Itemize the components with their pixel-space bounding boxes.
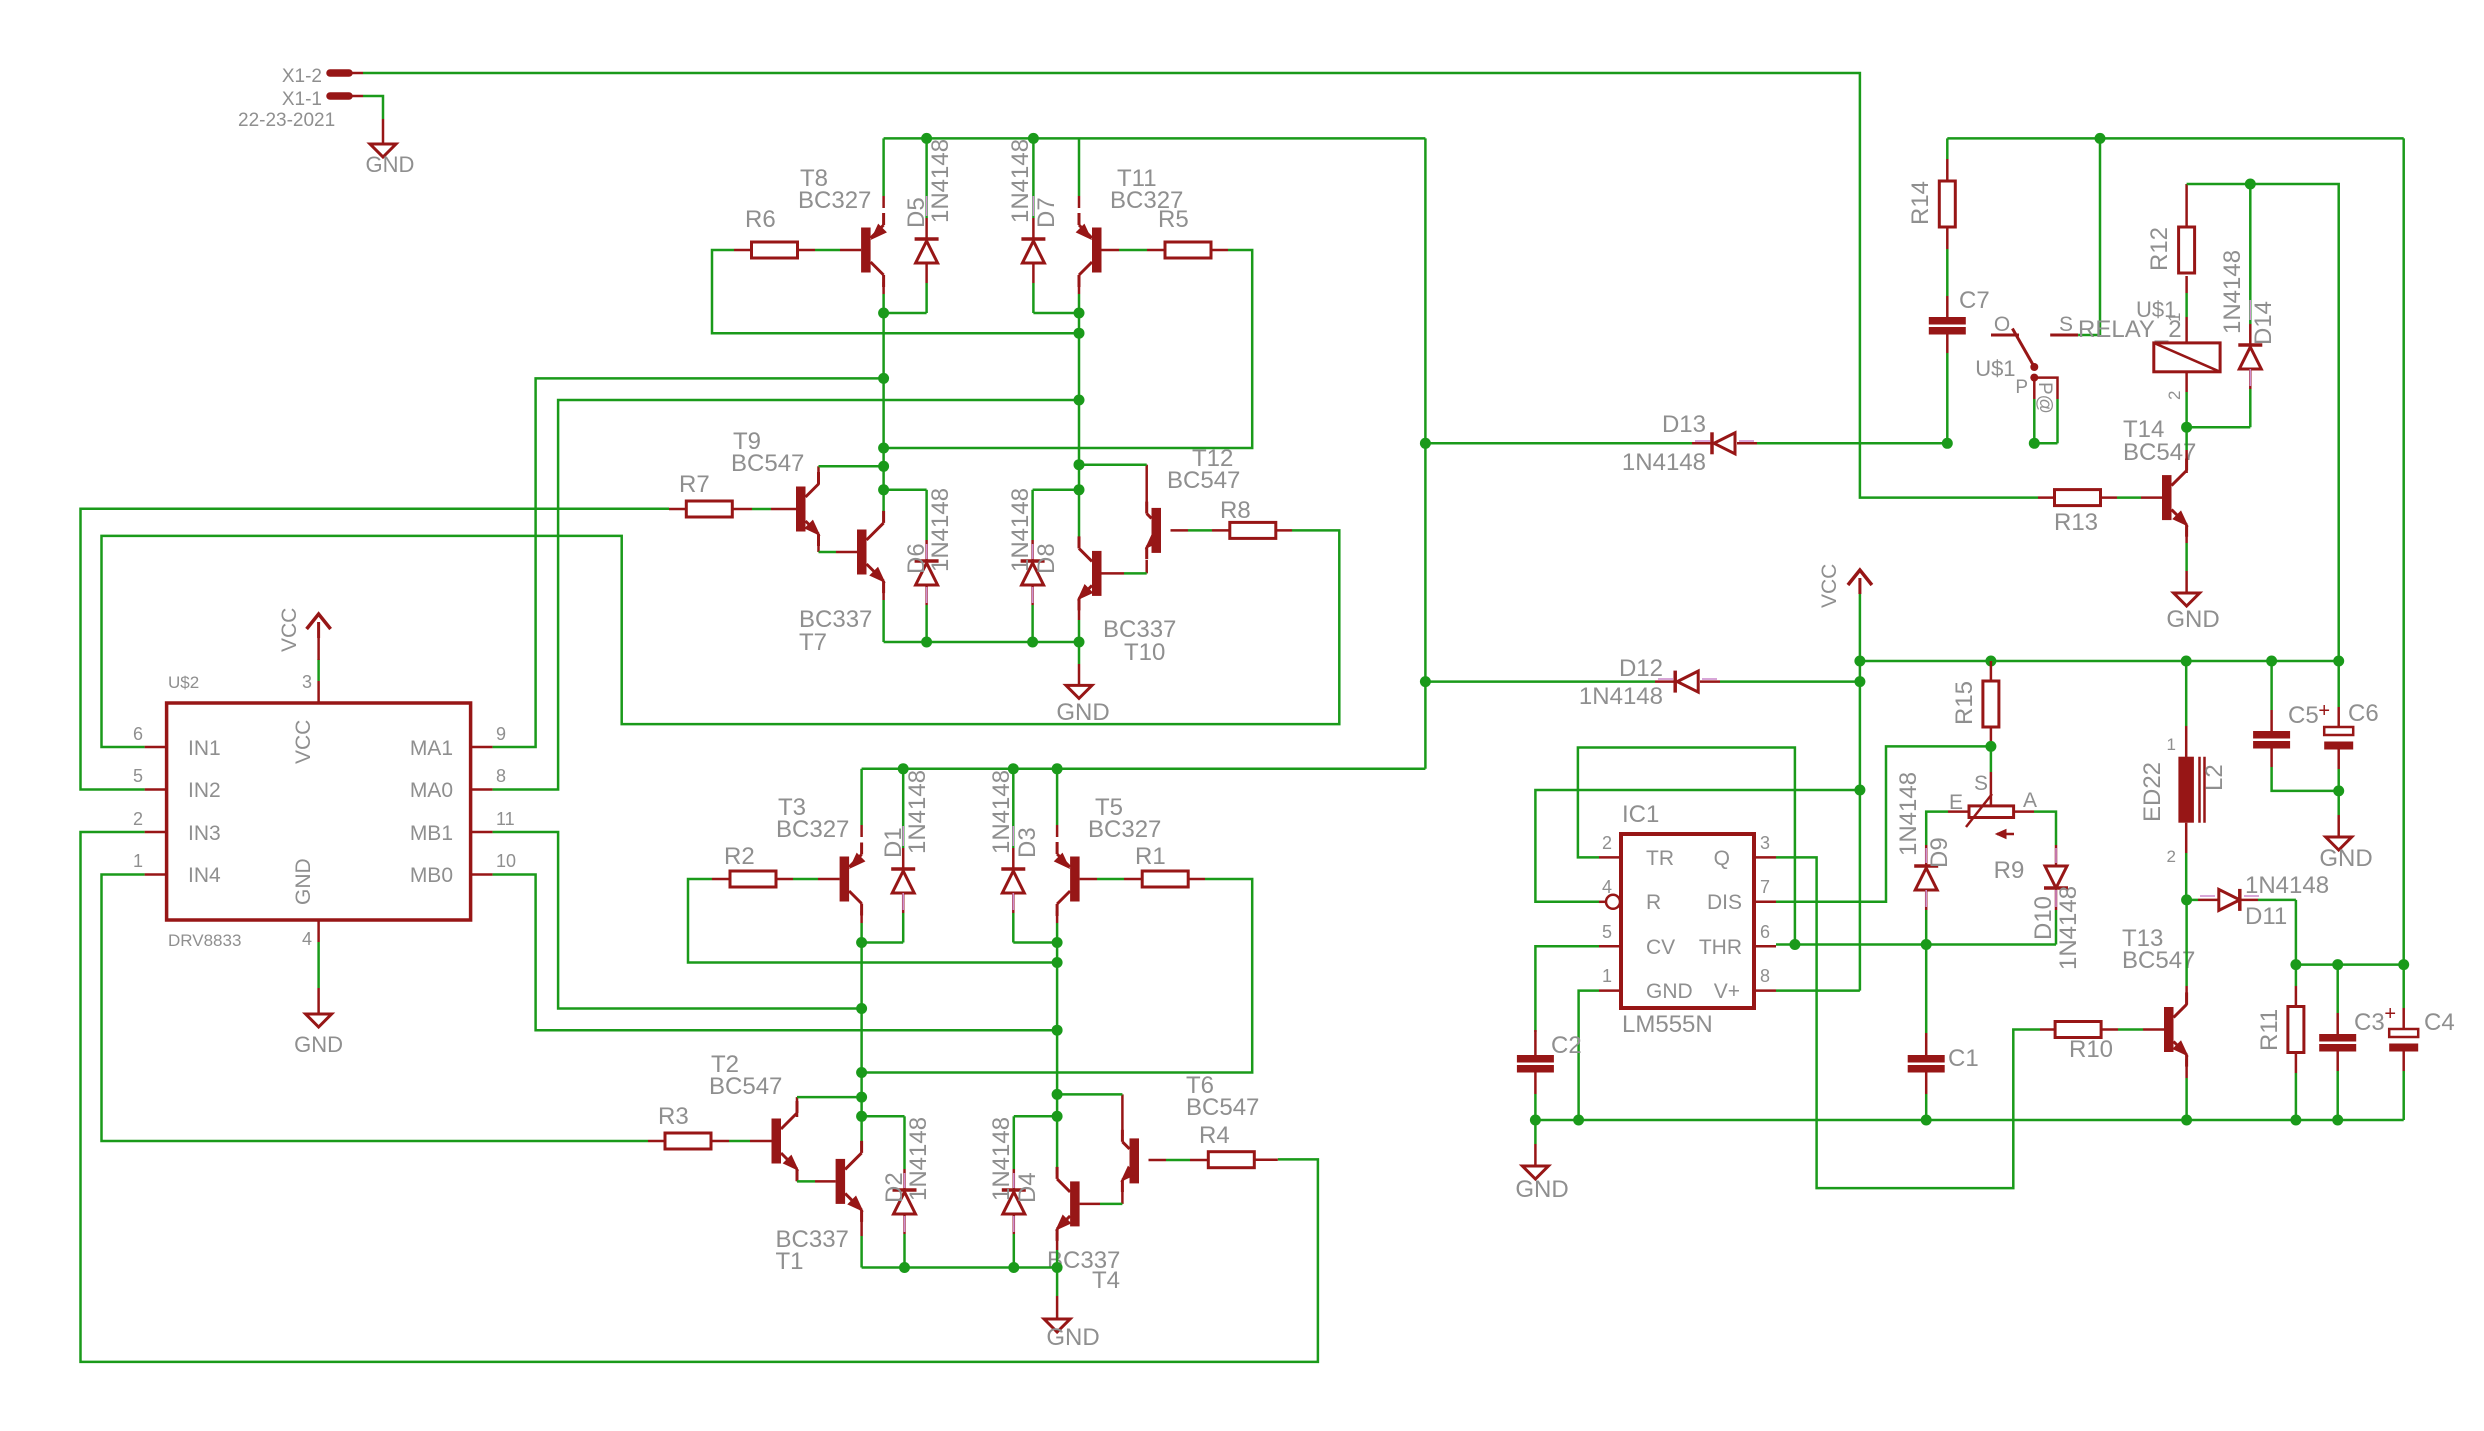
junction bus2 C4 [2398, 959, 2409, 970]
junction A1 D6 [878, 484, 889, 495]
wire upper bridge emitter rail [884, 641, 1079, 644]
svg-text:+: + [2318, 700, 2330, 722]
svg-text:5: 5 [133, 766, 143, 786]
svg-text:1N4148: 1N4148 [927, 488, 954, 572]
wire T11 collector to node [1078, 282, 1081, 313]
svg-text:GND: GND [2166, 606, 2219, 633]
diode D5 1N4148 [915, 138, 939, 313]
svg-text:3: 3 [1760, 833, 1770, 853]
capacitor C2 [1517, 1030, 1582, 1120]
wire R8 right stub [1276, 529, 1292, 532]
capacitor C4 (polarized) [2384, 965, 2454, 1120]
resistor R1 [1135, 843, 1188, 887]
wire R10 stubs [2040, 1028, 2164, 1031]
junction VCC resetline [1854, 785, 1865, 796]
node A1 junction D5 [878, 308, 889, 319]
wire node B0 column [1056, 943, 1059, 1175]
wire T5 emitter riser [1056, 769, 1059, 837]
junction B1 T2 [856, 1092, 867, 1103]
svg-text:2: 2 [2167, 847, 2176, 866]
IC U$2 DRV8833 box [167, 673, 471, 950]
label D5 [903, 139, 954, 228]
wire R3 stubs [648, 1140, 772, 1143]
junction top rail D5 [921, 133, 932, 144]
svg-text:D6: D6 [903, 543, 930, 574]
transistor T5 BC327 [1055, 842, 1080, 916]
svg-text:D1: D1 [880, 827, 907, 858]
svg-text:R15: R15 [1951, 681, 1978, 725]
label T8 [798, 165, 871, 214]
wire VCC bus [1860, 660, 2339, 663]
svg-text:T4: T4 [1092, 1267, 1120, 1294]
label L2 pin1 [2167, 735, 2176, 754]
junction VBAT D13 [1420, 438, 1431, 449]
IC1 pin names [1646, 847, 1742, 1003]
wire T2 collector to node B1 [797, 1097, 862, 1117]
power VCC (U$2 pin 3) [278, 608, 331, 681]
capacitor C3 [2319, 965, 2384, 1120]
wire D13 line [1425, 442, 1947, 445]
resistor R3 [658, 1103, 711, 1149]
svg-text:1: 1 [133, 851, 143, 871]
wire R4 right stub [1254, 1158, 1278, 1161]
transistor T4 BC337 [1056, 1167, 1080, 1241]
svg-text:C2: C2 [1551, 1032, 1582, 1059]
junction gndrail T13 [2181, 1115, 2192, 1126]
wire lower bridge emitter rail [862, 1266, 1058, 1269]
svg-text:BC327: BC327 [1088, 816, 1161, 843]
label D2 [881, 1117, 932, 1203]
label T5 [1088, 794, 1161, 843]
wire R7 stubs [669, 508, 796, 511]
svg-text:1N4148: 1N4148 [988, 1117, 1015, 1201]
wire IN1 to R8 [102, 530, 1340, 747]
label U$1 switch [1975, 356, 2015, 381]
resistor R12 [2146, 227, 2195, 273]
svg-text:IC1: IC1 [1622, 801, 1659, 828]
transistor T9 BC547 [796, 472, 820, 546]
wire D5 jog [884, 312, 927, 315]
wire T6 base to R4 [1149, 1159, 1209, 1162]
svg-text:1N4148: 1N4148 [1579, 683, 1663, 710]
diode D4 1N4148 [1002, 1116, 1057, 1267]
wire top right rail [1947, 137, 2403, 140]
junction gndrail C3 [2332, 1115, 2343, 1126]
svg-text:10: 10 [496, 851, 516, 871]
wire MB1 to node B1 [493, 832, 862, 1009]
date label [238, 110, 335, 131]
ground GND (U$2 pin 4) [294, 942, 343, 1057]
svg-text:VCC: VCC [292, 720, 315, 764]
diode D10 1N4148 [2044, 845, 2068, 945]
capacitor C5 [2253, 661, 2339, 791]
svg-text:IN2: IN2 [188, 779, 221, 802]
svg-text:1: 1 [2165, 313, 2184, 322]
svg-text:1N4148: 1N4148 [2219, 250, 2246, 334]
svg-text:D2: D2 [881, 1172, 908, 1203]
svg-text:R5: R5 [1158, 206, 1189, 233]
wire MB0 to node B0 [493, 875, 1058, 1031]
svg-text:2: 2 [133, 809, 143, 829]
wire R12line to C6 riser [2250, 184, 2338, 661]
wire T1 emitter to rail [860, 1210, 863, 1268]
label T4 [1047, 1247, 1120, 1294]
junction THR C1 [1921, 939, 1932, 950]
power VCC (right) [1818, 564, 1872, 661]
wire T12 base to R8 [1171, 529, 1231, 532]
junction B0 R2loop [1052, 957, 1063, 968]
ground GND (upper bridge) [1056, 642, 1109, 726]
label T13 [2122, 925, 2195, 974]
junction bus2 R11 [2290, 959, 2301, 970]
wire TR loop [1578, 748, 1795, 945]
svg-text:LM555N: LM555N [1622, 1011, 1713, 1038]
svg-text:7: 7 [1760, 877, 1770, 897]
svg-text:R8: R8 [1220, 497, 1251, 524]
svg-text:5: 5 [1602, 922, 1612, 942]
wire VBAT link vertical [1424, 138, 1427, 768]
wire node B1 column [860, 943, 863, 1152]
junction bus R15 [1985, 656, 1996, 667]
svg-text:4: 4 [302, 929, 312, 949]
svg-text:C7: C7 [1959, 287, 1990, 314]
resistor R5 [1158, 206, 1211, 258]
resistor R6 [745, 206, 798, 258]
svg-text:R9: R9 [1994, 857, 2025, 884]
junction bus C5 [2266, 656, 2277, 667]
U$2 pin names [188, 720, 453, 905]
wire THR line [1776, 943, 2056, 946]
transistor T8 BC327 [861, 213, 886, 287]
wire T13 collector up [2185, 900, 2188, 1005]
wire R2 to T3 base [776, 878, 840, 881]
wire T3 emitter riser [860, 769, 863, 837]
junction rail D6 [921, 637, 932, 648]
svg-text:GND: GND [2319, 845, 2372, 872]
transistor T12 BC547 [1146, 502, 1161, 560]
wire T7 emitter to rail [882, 581, 885, 642]
wire D14 to T14 collector [2187, 426, 2251, 429]
resistor R4 [1199, 1122, 1254, 1168]
svg-text:R10: R10 [2069, 1036, 2113, 1063]
wire rail to R14 [1946, 138, 1949, 181]
svg-text:R12: R12 [2146, 227, 2173, 271]
transistor T7 BC337 [857, 511, 885, 593]
wire T6 collector to node B0 [1057, 1094, 1122, 1136]
transistor T14 BC547 [2162, 459, 2188, 537]
capacitor C1 [1908, 945, 1979, 1121]
svg-text:1N4148: 1N4148 [2245, 872, 2329, 899]
junction A0 R6loop [1074, 328, 1085, 339]
junction bus C6 [2333, 656, 2344, 667]
wire T6 emitter to T4 base [1080, 1190, 1123, 1204]
svg-text:VCC: VCC [1818, 564, 1841, 608]
junction VBAT D12 [1420, 676, 1431, 687]
svg-text:1N4148: 1N4148 [1007, 488, 1034, 572]
capacitor C7 [1929, 287, 1990, 335]
wire R6 to T8 base [798, 249, 862, 252]
label D6 [903, 488, 954, 574]
transistor T13 BC547 [2164, 992, 2188, 1066]
svg-text:R3: R3 [658, 1103, 689, 1130]
junction rail D8 [1027, 637, 1038, 648]
junction A1 MA1 [878, 373, 889, 384]
svg-text:P: P [2015, 377, 2028, 398]
junction top rail D7 [1028, 133, 1039, 144]
label L2 pin2 [2167, 847, 2176, 866]
svg-text:D10: D10 [2030, 896, 2057, 940]
svg-text:X1-1: X1-1 [282, 89, 322, 110]
svg-text:A: A [2023, 789, 2037, 812]
diode D1 1N4148 [891, 769, 915, 943]
transistor T11 BC327 [1077, 213, 1102, 287]
junction lower rail D4 [1008, 1262, 1019, 1273]
capacitor C6 (polarized) [2318, 661, 2378, 791]
label U$1 relay [2136, 297, 2176, 322]
wire T11 emitter riser [1078, 138, 1081, 208]
wire R5 loop to node A1 [884, 250, 1253, 448]
ground GND (C2) [1515, 1120, 1568, 1203]
svg-text:GND: GND [1056, 699, 1109, 726]
svg-text:1N4148: 1N4148 [1895, 772, 1922, 856]
svg-text:X1-2: X1-2 [282, 66, 322, 87]
label L2 [2139, 762, 2228, 822]
svg-text:BC327: BC327 [798, 187, 871, 214]
junction A1 T9 [878, 461, 889, 472]
wire C7 to D13 line [1946, 333, 1949, 443]
wire S to top rail [2078, 138, 2100, 335]
switch U$1 contact S [2050, 313, 2078, 336]
svg-text:THR: THR [1699, 936, 1742, 959]
label D9 [1895, 772, 1953, 868]
svg-text:BC547: BC547 [731, 450, 804, 477]
svg-text:O: O [1994, 313, 2010, 336]
label A [2023, 789, 2037, 812]
resistor R11 [2256, 965, 2304, 1120]
transistor T2 BC547 [772, 1101, 799, 1181]
transistor T6 BC547 [1121, 1130, 1139, 1192]
svg-text:1N4148: 1N4148 [2055, 886, 2082, 970]
svg-text:BC547: BC547 [709, 1073, 782, 1100]
svg-text:BC547: BC547 [2122, 947, 2195, 974]
wire D3 jog [1013, 941, 1057, 944]
svg-text:2: 2 [1602, 833, 1612, 853]
label D10 [2030, 886, 2082, 970]
switch U$1 lever [2012, 329, 2038, 382]
svg-text:6: 6 [1760, 922, 1770, 942]
svg-text:BC547: BC547 [1167, 467, 1240, 494]
diode D14 1N4148 [2238, 184, 2262, 427]
label D13 [1622, 411, 1706, 476]
svg-text:GND: GND [1646, 980, 1693, 1003]
wire T10 emitter to rail [1078, 602, 1081, 642]
svg-text:IN3: IN3 [188, 822, 221, 845]
svg-text:D12: D12 [1619, 655, 1663, 682]
wire VCC riser down [1776, 661, 1860, 991]
wire D11 to bus [2295, 900, 2298, 965]
svg-text:GND: GND [366, 152, 415, 177]
diode D2 1N4148 [862, 1116, 917, 1267]
junction C7 D13line [1942, 438, 1953, 449]
label RELAY_2 [2078, 316, 2182, 343]
svg-text:1N4148: 1N4148 [905, 1117, 932, 1201]
label T14 [2123, 416, 2196, 466]
diode D13 1N4148 [1695, 432, 1754, 454]
svg-text:T10: T10 [1124, 639, 1165, 666]
wire X1-2 to R13 [363, 73, 2038, 498]
svg-text:1N4148: 1N4148 [1007, 139, 1034, 223]
wire T13 emitter to rail [2185, 1059, 2188, 1120]
svg-text:1: 1 [2167, 735, 2176, 754]
wire T8 emitter riser [882, 138, 885, 208]
connector pin X1-2 [282, 66, 363, 87]
node B0 junction D3 [1052, 937, 1063, 948]
svg-text:3: 3 [302, 672, 312, 692]
svg-text:1N4148: 1N4148 [1622, 449, 1706, 476]
junction VCC riser [1854, 656, 1865, 667]
svg-text:1N4148: 1N4148 [904, 770, 931, 854]
label T12 [1167, 445, 1240, 494]
svg-text:D8: D8 [1033, 543, 1060, 574]
svg-text:U$2: U$2 [168, 673, 199, 692]
svg-text:D11: D11 [2245, 903, 2287, 930]
junction lower rail D3 [1008, 763, 1019, 774]
label D12 [1579, 655, 1663, 710]
label D11 [2245, 872, 2329, 930]
node A0 junction D7 [1074, 308, 1085, 319]
IC1 reset circle [1606, 895, 1620, 909]
label D1 [880, 770, 931, 858]
wire T12 collector to node A0 [1079, 465, 1147, 506]
junction lower rail D1 [898, 763, 909, 774]
wire T9 emitter to T7 base [819, 539, 858, 552]
wire E to D9 [1926, 812, 1969, 845]
wire R12 top [2187, 184, 2251, 227]
wire X1-1 to GND [363, 96, 383, 144]
diode D9 1N4148 [1914, 845, 1938, 945]
switch U$1 contact O [1991, 313, 2019, 336]
resistor R14 [1907, 181, 1955, 227]
IC1 pin stubs [1599, 857, 1776, 990]
svg-text:S: S [2059, 313, 2073, 336]
junction B0 D4 [1052, 1111, 1063, 1122]
svg-text:D4: D4 [1014, 1172, 1041, 1203]
svg-text:R4: R4 [1199, 1122, 1230, 1149]
svg-text:DRV8833: DRV8833 [168, 931, 241, 950]
wire bottom GND rail [1535, 1119, 2403, 1122]
junction bus2 C3 [2332, 959, 2343, 970]
U$2 pin stubs [145, 681, 493, 942]
label D3 [988, 770, 1041, 858]
resistor R15 [1951, 661, 1999, 727]
wire R14 to C7 [1946, 227, 1949, 317]
label T6 [1186, 1072, 1259, 1121]
junction D14 top [2245, 179, 2256, 190]
svg-text:MB0: MB0 [410, 864, 453, 887]
wire T3 collector to node [860, 911, 863, 943]
U$2 pin numbers [133, 672, 516, 949]
svg-text:DIS: DIS [1707, 891, 1742, 914]
wire IN4 to R3 [102, 875, 649, 1142]
relay pin 2 [2165, 372, 2187, 427]
wire right top bus [2296, 963, 2404, 966]
label T2 [709, 1051, 782, 1100]
junction gndrail R11 [2290, 1115, 2301, 1126]
svg-text:D3: D3 [1014, 827, 1041, 858]
label T10 [1103, 616, 1176, 666]
svg-text:1N4148: 1N4148 [927, 139, 954, 223]
junction A1 R5loop [878, 443, 889, 454]
wire T12 emitter to T10 base [1102, 560, 1147, 573]
wire T2 emitter to T1 base [797, 1171, 836, 1181]
label D8 [1007, 488, 1060, 574]
wire T5 base to R1 [1080, 878, 1143, 881]
wire A to D10 [2014, 812, 2056, 845]
wire node A1 column [882, 313, 885, 522]
label T9 [731, 428, 804, 477]
junction B1 R1loop [856, 1067, 867, 1078]
svg-text:11: 11 [496, 809, 515, 829]
svg-text:D14: D14 [2250, 301, 2277, 345]
svg-text:BC327: BC327 [776, 816, 849, 843]
svg-text:R: R [1646, 891, 1661, 914]
wire D12 line [1425, 680, 1860, 683]
wire D1 jog [862, 941, 904, 944]
wire MA0 to node A0 [493, 400, 1079, 790]
wire D7 jog [1033, 312, 1079, 315]
wire VBAT top rail (lower bridge) [862, 768, 1426, 771]
wire P to D13 line [2034, 399, 2057, 443]
node B1 junction D1 [856, 937, 867, 948]
label D7 [1007, 139, 1060, 228]
svg-text:GND: GND [292, 858, 315, 905]
inductor L2 [2178, 661, 2204, 900]
potentiometer R9 [1966, 794, 2024, 884]
resistor R2 [724, 843, 776, 887]
diode D7 1N4148 [1021, 138, 1045, 313]
svg-text:Q: Q [1714, 847, 1730, 870]
ground GND (connector) [366, 144, 415, 177]
svg-text:C5: C5 [2288, 702, 2319, 729]
junction A0 MA0 [1074, 395, 1085, 406]
svg-text:D5: D5 [903, 197, 930, 228]
wire GND1 to rail [1579, 991, 1599, 1120]
junction B1 D2 [856, 1111, 867, 1122]
IC1 pin numbers [1602, 833, 1770, 986]
junction THR TR [1789, 939, 1800, 950]
svg-text:T7: T7 [799, 629, 827, 656]
junction B0 T6 [1052, 1089, 1063, 1100]
svg-text:22-23-2021: 22-23-2021 [238, 110, 335, 131]
diode D8 1N4148 [1021, 490, 1079, 642]
svg-text:V+: V+ [1714, 980, 1740, 1003]
junction B0 MB0 [1052, 1025, 1063, 1036]
IC IC1 LM555N box [1621, 801, 1754, 1038]
transistor T3 BC327 [840, 843, 865, 916]
resistor R8 [1220, 497, 1276, 538]
svg-text:CV: CV [1646, 936, 1675, 959]
wire R15 bottom [1990, 727, 1993, 748]
switch U$1 P contact box [2015, 377, 2057, 414]
wire T4 emitter to rail [1056, 1233, 1059, 1268]
label T3 [776, 794, 849, 843]
junction R15 DIS [1985, 741, 1996, 752]
svg-text:BC547: BC547 [1186, 1094, 1259, 1121]
svg-text:GND: GND [1515, 1176, 1568, 1203]
wire IN3 to R4 [81, 832, 1318, 1362]
svg-text:R1: R1 [1135, 843, 1166, 870]
svg-text:C3: C3 [2354, 1009, 2385, 1036]
